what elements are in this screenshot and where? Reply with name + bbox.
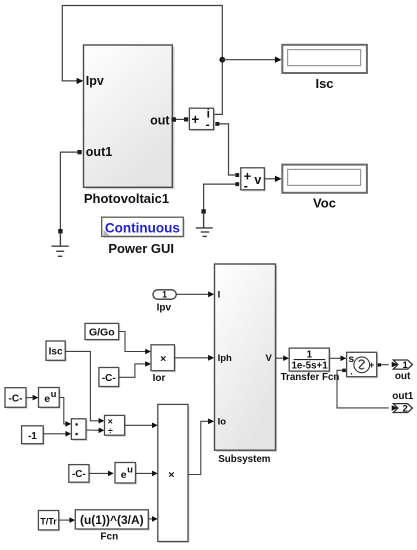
svg-text:1e-5s+1: 1e-5s+1 — [291, 361, 328, 372]
arrowhead into divide input 2 — [99, 428, 105, 434]
arrowhead into Ipv — [77, 78, 84, 84]
arrowhead into Voc display — [275, 176, 282, 182]
port: PV out1 port square — [77, 150, 81, 154]
arrowhead into Fcn — [69, 517, 75, 523]
block constant -1 — [22, 426, 45, 445]
svg-text:out1: out1 — [392, 391, 414, 402]
inport Ipv — [153, 290, 176, 300]
wire: G/Go to Ior product — [119, 332, 147, 352]
wire: PV out to current measurement + — [176, 118, 184, 120]
wire: source output to outport out — [381, 364, 389, 366]
wire: Fcn to big product input 3 — [148, 518, 153, 520]
svg-text:×: × — [168, 469, 174, 481]
wire: v minus to right ground — [204, 184, 236, 209]
svg-text:out: out — [395, 371, 411, 382]
port: right ground port square — [201, 209, 205, 213]
block big product — [158, 404, 190, 543]
block constant T/Tr — [38, 511, 60, 532]
wire: T/Tr to Fcn — [59, 519, 71, 521]
arrowhead into big product input 3 — [152, 516, 158, 522]
block math function exp 2 — [115, 463, 137, 485]
block constant -C- 2 — [69, 465, 91, 484]
port: current measurement + port — [184, 117, 188, 121]
block Photovoltaic1 — [84, 45, 175, 189]
svg-text:e: e — [44, 393, 50, 405]
arrowhead into Subsystem Io — [208, 418, 214, 424]
block display Voc — [282, 165, 367, 193]
svg-text:out: out — [150, 113, 170, 127]
wire: exp 2 to big product input 2 — [136, 472, 154, 474]
block display Isc — [282, 45, 367, 73]
arrowhead into big product input 2 — [152, 471, 158, 477]
svg-text:-C-: -C- — [102, 373, 116, 384]
svg-text:-C-: -C- — [9, 394, 23, 405]
svg-text:Fcn: Fcn — [100, 532, 118, 543]
arrowhead into Transfer Fcn — [283, 355, 289, 361]
block divide — [105, 415, 127, 436]
svg-text:-: - — [244, 178, 248, 193]
wire: v output to Voc display — [264, 178, 275, 180]
block product with dot icons — [71, 419, 87, 441]
svg-text:Ior: Ior — [153, 373, 166, 384]
svg-text:Photovoltaic1: Photovoltaic1 — [84, 191, 169, 206]
svg-text:T/Tr: T/Tr — [40, 516, 57, 526]
wire: big product to Subsystem Io — [188, 421, 209, 474]
arrowhead into Isc display — [275, 57, 282, 63]
block Transfer Fcn — [289, 348, 331, 373]
block powergui — [102, 217, 185, 238]
svg-text:Isc: Isc — [315, 76, 333, 91]
block constant -C- 1 — [5, 388, 28, 409]
svg-text:e: e — [121, 469, 127, 481]
svg-text:-C-: -C- — [72, 469, 86, 480]
block controlled voltage source — [347, 352, 379, 378]
outport out — [393, 360, 412, 371]
wire: -1 to dot product input 2 — [43, 433, 67, 435]
svg-text:Ipv: Ipv — [157, 303, 172, 314]
svg-text:2: 2 — [403, 403, 408, 414]
wire: source minus to outport out1 — [337, 370, 389, 408]
arrowhead into divide input 1 — [99, 418, 105, 424]
arrowhead into Ior input 1 — [145, 349, 151, 355]
svg-text:Io: Io — [218, 417, 227, 428]
block constant Isc — [46, 341, 67, 362]
arrowhead into Subsystem I — [208, 291, 214, 297]
svg-text:×: × — [108, 417, 113, 427]
arrowhead into dot product input 1 — [65, 421, 71, 427]
svg-text:.: . — [350, 366, 353, 376]
port: left ground port square — [58, 229, 62, 233]
svg-text:Iph: Iph — [218, 353, 232, 364]
wire: Isc constant to divide input 1 — [65, 351, 100, 420]
svg-text:u: u — [127, 464, 133, 475]
arrowhead into exp 2 — [108, 471, 114, 477]
block current measurement i — [189, 107, 215, 132]
svg-text:I: I — [218, 290, 221, 301]
svg-text:u: u — [51, 389, 57, 400]
svg-text:1: 1 — [403, 360, 409, 371]
port: controlled voltage source output — [378, 363, 382, 366]
svg-text:Power GUI: Power GUI — [108, 241, 174, 256]
svg-text:Ipv: Ipv — [86, 74, 104, 88]
port: voltage measurement + port — [235, 173, 239, 177]
svg-text:1: 1 — [162, 290, 167, 300]
wire: Ipv inport to Subsystem I — [176, 293, 209, 295]
svg-text:Isc: Isc — [49, 347, 63, 358]
arrowhead into exp 1 — [33, 395, 39, 401]
block Fcn — [75, 510, 150, 531]
svg-text:G/Go: G/Go — [89, 326, 115, 338]
svg-text:+: + — [369, 360, 374, 370]
svg-text:-: - — [206, 118, 210, 132]
wire: i minus to voltage measurement plus — [219, 124, 235, 175]
svg-text:Subsystem: Subsystem — [218, 454, 271, 465]
port: voltage measurement - port — [235, 182, 239, 186]
arrowhead into big product input 1 — [152, 423, 158, 429]
block constant G/Go — [85, 323, 120, 341]
svg-text:Continuous: Continuous — [105, 220, 180, 235]
wire: -C- 2 to exp 2 — [89, 472, 109, 474]
arrowhead into Subsystem Iph — [208, 355, 214, 361]
svg-text:1: 1 — [307, 350, 313, 361]
svg-text:(u(1))^(3/A): (u(1))^(3/A) — [80, 513, 144, 527]
block math function exp 1 — [39, 388, 61, 409]
wire: junction to Isc display — [222, 59, 275, 61]
port: current measurement - port — [215, 122, 219, 126]
block constant -C- for Ior — [99, 368, 120, 389]
wire: dot product to divide input 2 — [86, 429, 100, 431]
block voltage measurement v — [241, 168, 266, 193]
wire: -C- to Ior product input 2 — [119, 364, 147, 377]
ground symbol right — [196, 214, 213, 237]
wire: divide to big product input 1 — [125, 424, 154, 426]
arrowhead into outport out1 — [392, 405, 398, 411]
block Subsystem — [215, 264, 278, 452]
arrowhead into outport out — [392, 362, 398, 368]
wire: Ior to Subsystem Iph — [175, 357, 210, 359]
arrowhead into Ior input 2 — [145, 361, 151, 367]
svg-text:V: V — [265, 353, 272, 364]
junction node on i signal — [219, 57, 225, 63]
wire: Subsystem V to Transfer Fcn — [276, 357, 285, 359]
svg-text:out1: out1 — [86, 145, 112, 159]
block product Ior — [151, 345, 176, 372]
wire: -C- 1 to exp 1 — [26, 397, 34, 399]
wire: Transfer Fcn to controlled voltage source — [329, 357, 341, 359]
svg-text:Voc: Voc — [313, 196, 336, 211]
arrowhead into controlled voltage source s input — [341, 356, 347, 362]
wire: exp 1 to dot product input 1 — [59, 398, 67, 424]
outport out1 — [393, 403, 412, 414]
ground symbol left — [51, 233, 68, 256]
wire: out1 to left ground — [60, 152, 77, 229]
svg-text:+: + — [191, 112, 199, 127]
powergui corner icon — [104, 230, 111, 237]
svg-text:v: v — [254, 173, 261, 187]
svg-text:×: × — [160, 353, 166, 365]
svg-text:-1: -1 — [28, 431, 37, 442]
svg-text:÷: ÷ — [108, 426, 113, 436]
svg-text:Transfer Fcn: Transfer Fcn — [281, 372, 340, 383]
wire: feedback loop from current measurement i output up and around to Ipv input — [62, 6, 222, 115]
svg-text:s: s — [348, 353, 354, 365]
port: controlled voltage source - input — [342, 369, 346, 373]
port: PV out port square — [172, 117, 176, 121]
arrowhead into dot product input 2 — [65, 431, 71, 437]
